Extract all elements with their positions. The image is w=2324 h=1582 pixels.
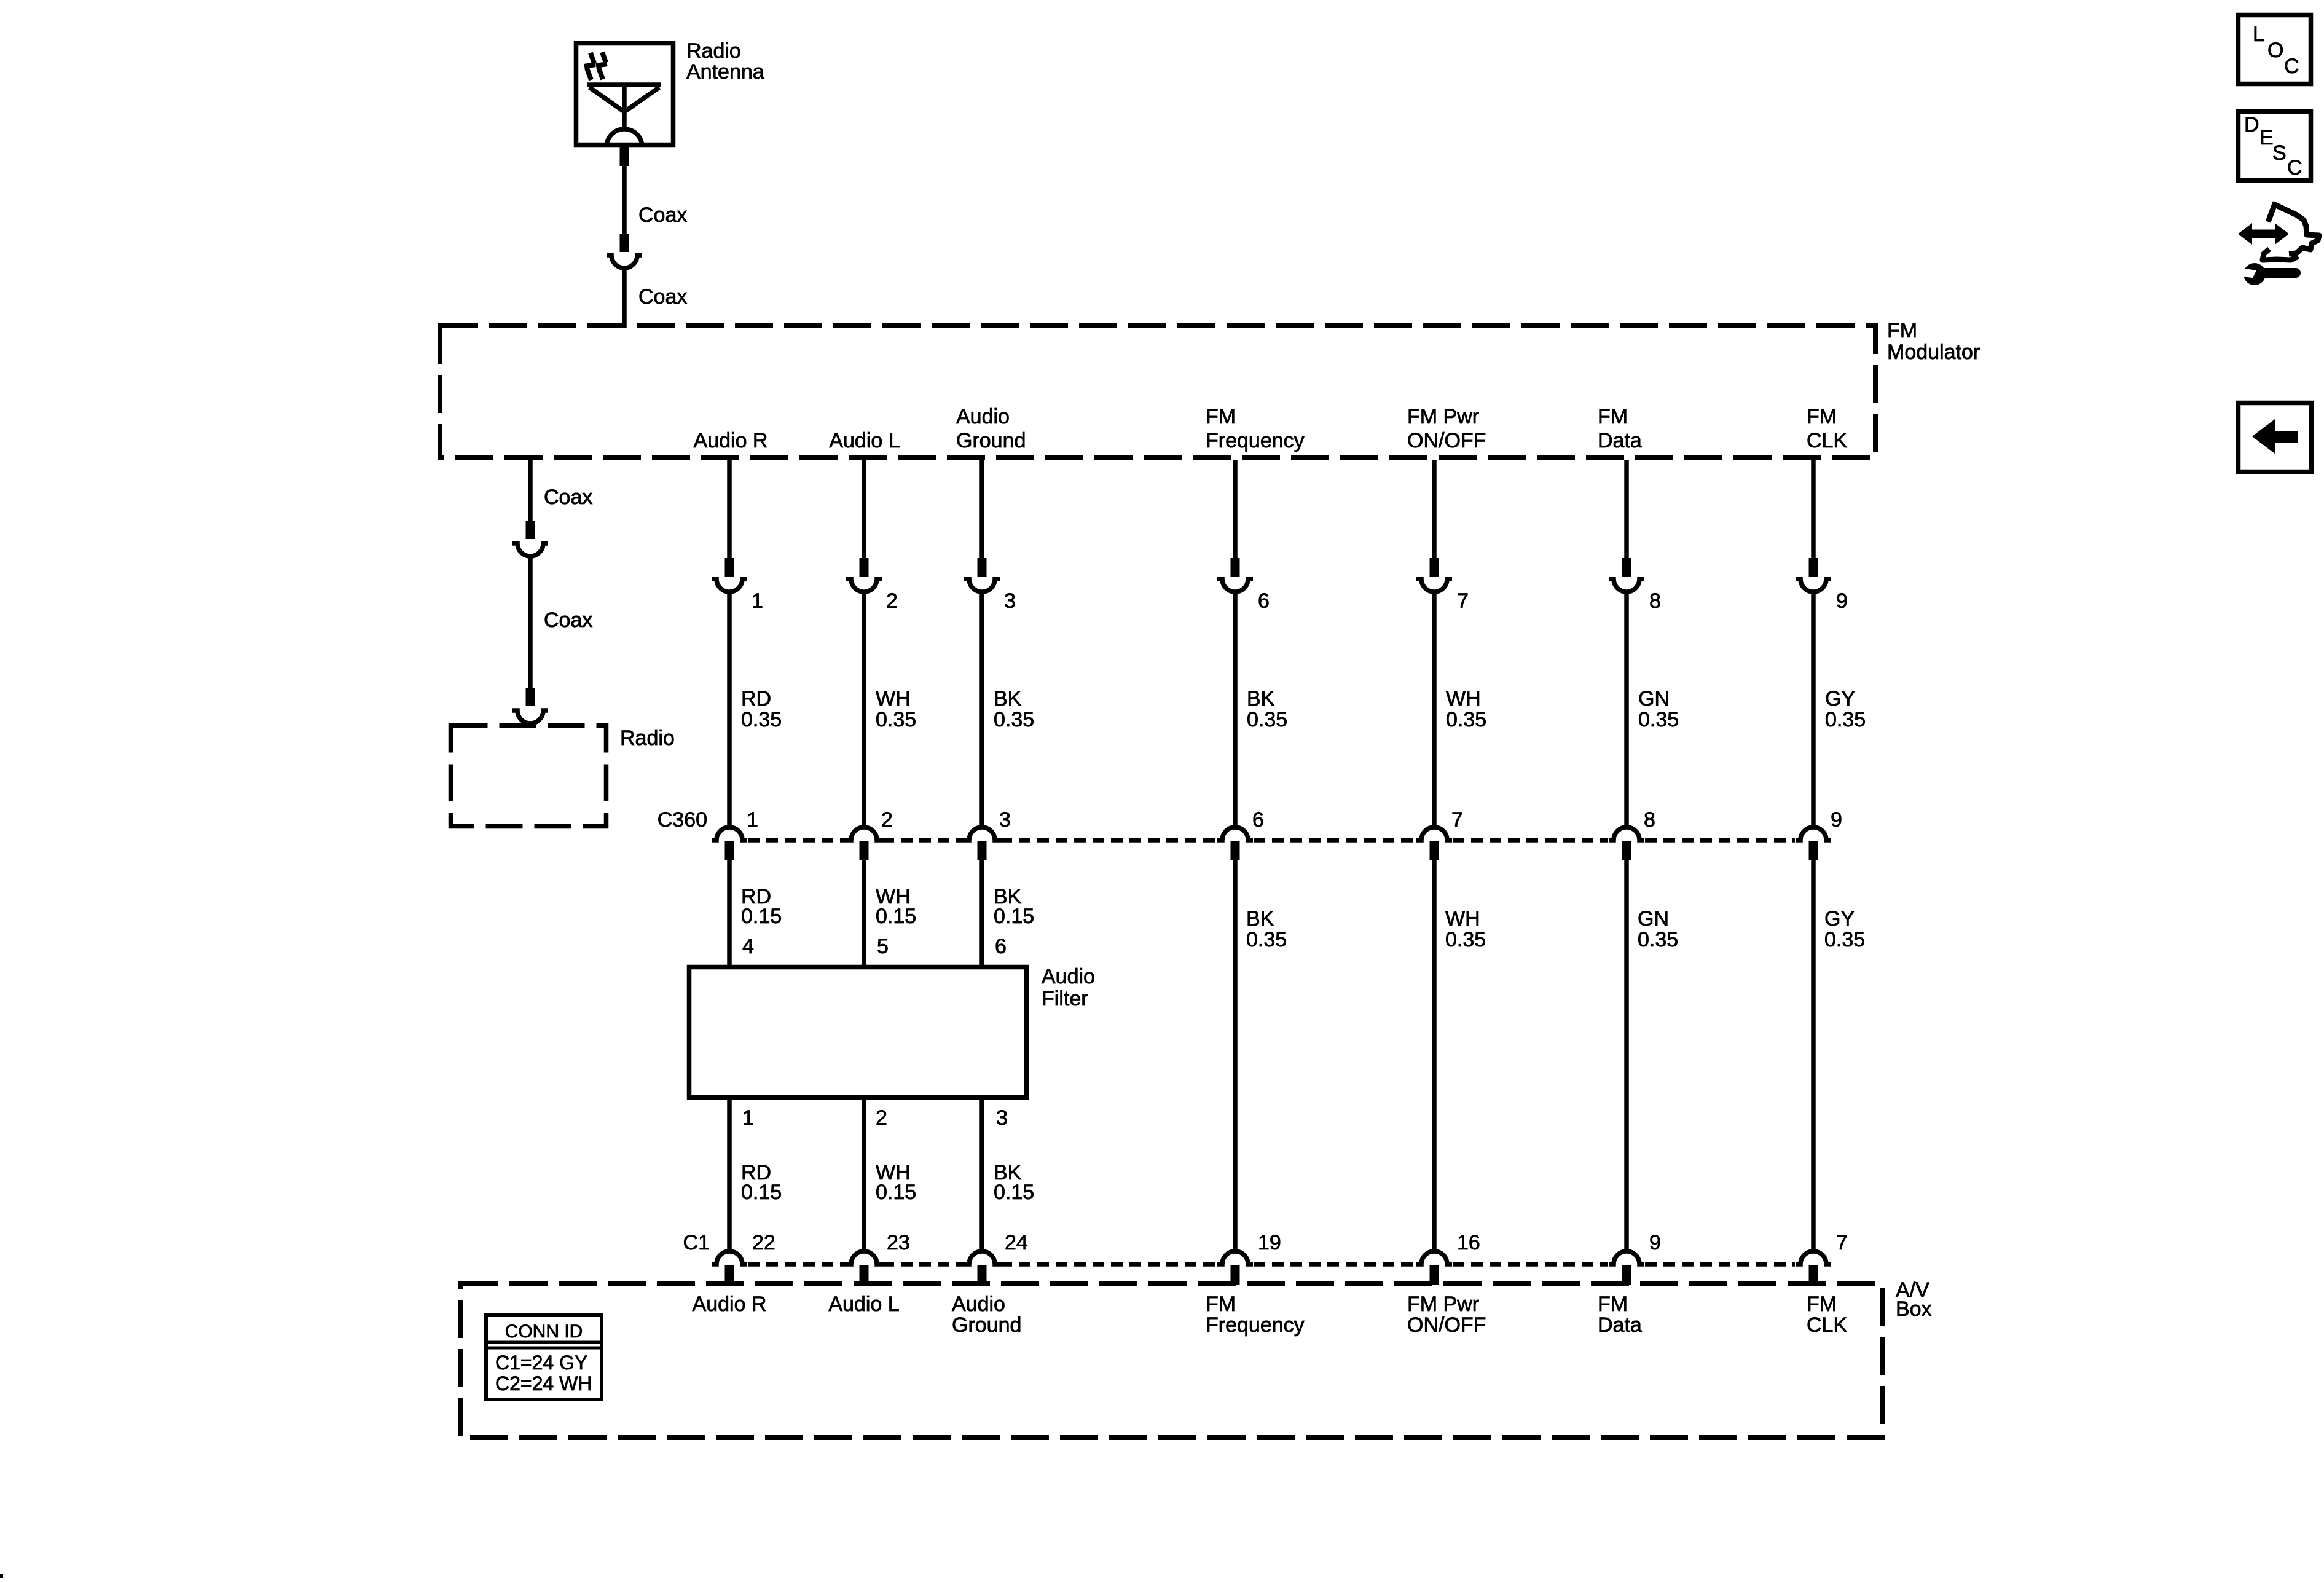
- C1 male pin wire 3: [978, 1265, 987, 1285]
- wire 6 lower: [1624, 860, 1629, 1252]
- svg-text:S: S: [2272, 141, 2287, 165]
- audio filter box: [689, 967, 1027, 1098]
- svg-text:GY: GY: [1824, 907, 1855, 931]
- svg-text:7: 7: [1457, 589, 1469, 613]
- svg-text:7: 7: [1836, 1231, 1848, 1254]
- C360 dome wire 1: [712, 827, 747, 840]
- A/V box dashed: [460, 1284, 1882, 1438]
- svg-text:L: L: [2253, 23, 2264, 46]
- svg-text:16: 16: [1457, 1231, 1480, 1254]
- C360 dome wire 4: [1217, 827, 1253, 840]
- svg-text:0.35: 0.35: [1446, 708, 1486, 731]
- male pin wire 2: [860, 558, 869, 577]
- male pin wire 7: [1809, 558, 1818, 577]
- wire 5 FM pwr upper: [1432, 460, 1437, 558]
- wire 7 lower: [1811, 860, 1816, 1252]
- wire 3 to audio filter: [979, 860, 984, 967]
- coax connector cup 2: [512, 543, 548, 556]
- wire 3 below audio filter: [979, 1098, 984, 1252]
- svg-text:BK: BK: [994, 687, 1022, 710]
- wire 2 mid: [862, 590, 866, 827]
- svg-text:Coax: Coax: [544, 486, 592, 509]
- svg-text:6: 6: [1252, 808, 1264, 832]
- svg-text:CLK: CLK: [1807, 429, 1847, 452]
- connector cup pin 8: [1609, 579, 1644, 592]
- C1 dome wire 4: [1217, 1251, 1253, 1264]
- wire coax to radio: [528, 554, 533, 688]
- C1 male pin wire 4: [1231, 1265, 1240, 1285]
- connector cup pin 6: [1217, 579, 1253, 592]
- svg-text:Ground: Ground: [956, 429, 1026, 452]
- svg-text:GN: GN: [1638, 907, 1669, 931]
- C360 male pin wire 1: [725, 841, 734, 860]
- svg-text:Audio L: Audio L: [828, 1293, 899, 1316]
- coax male pin 2: [620, 234, 629, 252]
- svg-text:C1=24 GY: C1=24 GY: [495, 1352, 587, 1374]
- C360 dotted junction line: [748, 838, 1795, 843]
- C360 dome wire 5: [1416, 827, 1452, 840]
- svg-text:6: 6: [1258, 589, 1270, 613]
- svg-text:FM: FM: [1598, 1293, 1628, 1316]
- svg-text:C2=24 WH: C2=24 WH: [495, 1372, 592, 1395]
- coax male pin below antenna box: [620, 147, 629, 166]
- svg-text:6: 6: [995, 935, 1007, 958]
- wire 3 audio ground upper: [979, 460, 984, 558]
- svg-text:9: 9: [1831, 808, 1842, 832]
- wire 2 audio L upper: [862, 460, 866, 558]
- connector cup pin 1: [712, 579, 747, 592]
- wire coax upper: [622, 166, 627, 234]
- C1 male pin wire 7: [1809, 1265, 1818, 1285]
- wire coax to FM modulator: [622, 266, 627, 328]
- C360 male pin wire 4: [1231, 841, 1240, 860]
- svg-text:BK: BK: [1247, 687, 1275, 710]
- male pin wire 1: [725, 558, 734, 577]
- svg-text:C360: C360: [658, 808, 707, 832]
- svg-text:FM: FM: [1598, 405, 1628, 428]
- svg-text:0.15: 0.15: [741, 1181, 782, 1204]
- wire 4 lower: [1233, 860, 1238, 1252]
- C360 dome wire 6: [1609, 827, 1644, 840]
- wire 1 to audio filter: [727, 860, 732, 967]
- C360 dome wire 7: [1796, 827, 1831, 840]
- svg-text:1: 1: [742, 1106, 754, 1130]
- wire 2 below audio filter: [862, 1098, 866, 1252]
- LOC box: [2239, 15, 2311, 84]
- connector cup pin 3: [964, 579, 1000, 592]
- FM modulator dashed box: [440, 326, 1875, 458]
- svg-text:3: 3: [1004, 589, 1016, 613]
- C360 male pin wire 2: [860, 841, 869, 860]
- male pin wire 4: [1231, 558, 1240, 577]
- svg-text:23: 23: [887, 1231, 910, 1254]
- back arrow icon: [2252, 419, 2298, 454]
- C1 male pin wire 5: [1430, 1265, 1439, 1285]
- svg-text:Radio: Radio: [620, 726, 675, 750]
- conn id table divider: [486, 1342, 602, 1348]
- C360 male pin wire 5: [1430, 841, 1439, 860]
- coax male pin 4: [526, 688, 535, 706]
- wire 1 mid: [727, 590, 732, 827]
- svg-text:9: 9: [1836, 589, 1848, 613]
- svg-text:Coax: Coax: [638, 203, 687, 227]
- nav wrench icon: [2241, 263, 2296, 285]
- DESC box: [2239, 112, 2311, 181]
- svg-text:3: 3: [996, 1106, 1008, 1130]
- antenna RF bolt 1: [584, 53, 595, 80]
- svg-text:ON/OFF: ON/OFF: [1407, 429, 1486, 452]
- coax male pin 3: [526, 521, 535, 539]
- conn id table box: [486, 1315, 602, 1399]
- radio dashed box: [451, 726, 607, 827]
- svg-text:0.15: 0.15: [994, 1181, 1034, 1204]
- svg-text:Coax: Coax: [544, 608, 592, 632]
- C1 dome wire 7: [1796, 1251, 1831, 1264]
- svg-text:Antenna: Antenna: [686, 60, 764, 84]
- svg-text:0.35: 0.35: [1638, 708, 1679, 731]
- svg-text:2: 2: [881, 808, 893, 832]
- svg-text:24: 24: [1005, 1231, 1028, 1254]
- C1 dome wire 1: [712, 1251, 747, 1264]
- coax wire below FM modulator: [528, 458, 533, 521]
- svg-text:Audio: Audio: [956, 405, 1010, 428]
- svg-text:0.35: 0.35: [741, 708, 782, 731]
- svg-text:WH: WH: [876, 687, 911, 710]
- svg-text:1: 1: [747, 808, 758, 832]
- svg-text:Audio: Audio: [952, 1293, 1005, 1316]
- svg-text:22: 22: [752, 1231, 775, 1254]
- svg-text:FM: FM: [1206, 405, 1236, 428]
- svg-text:Frequency: Frequency: [1206, 429, 1305, 452]
- antenna connector dome: [607, 129, 642, 147]
- C1 male pin wire 2: [860, 1265, 869, 1285]
- C360 dome wire 2: [846, 827, 882, 840]
- connector cup pin 2: [846, 579, 882, 592]
- svg-text:RD: RD: [741, 687, 771, 710]
- svg-text:3: 3: [999, 808, 1011, 832]
- coax connector cup 3: [512, 710, 548, 723]
- svg-text:0.35: 0.35: [1246, 928, 1287, 951]
- svg-text:0.35: 0.35: [1247, 708, 1287, 731]
- svg-text:Audio L: Audio L: [829, 429, 900, 452]
- antenna symbol: [587, 85, 661, 127]
- svg-text:8: 8: [1649, 589, 1661, 613]
- svg-text:Box: Box: [1896, 1297, 1932, 1321]
- svg-text:2: 2: [876, 1106, 887, 1130]
- svg-text:E: E: [2259, 126, 2274, 149]
- svg-text:CLK: CLK: [1807, 1313, 1847, 1337]
- wire 4 FM frequency upper: [1233, 460, 1238, 558]
- svg-text:0.35: 0.35: [1825, 708, 1866, 731]
- C1 male pin wire 1: [725, 1265, 734, 1285]
- svg-text:8: 8: [1644, 808, 1655, 832]
- svg-text:Audio: Audio: [1042, 965, 1095, 988]
- male pin wire 5: [1430, 558, 1439, 577]
- svg-text:2: 2: [886, 589, 898, 613]
- svg-text:D: D: [2244, 113, 2259, 136]
- svg-text:19: 19: [1258, 1231, 1281, 1254]
- C360 male pin wire 7: [1809, 841, 1818, 860]
- male pin wire 6: [1622, 558, 1631, 577]
- svg-text:GY: GY: [1825, 687, 1855, 710]
- svg-text:Modulator: Modulator: [1887, 340, 1980, 364]
- svg-text:FM: FM: [1807, 405, 1837, 428]
- nav arrow box: [2239, 403, 2312, 472]
- svg-text:WH: WH: [1446, 687, 1481, 710]
- svg-text:FM: FM: [1887, 319, 1917, 342]
- svg-text:0.35: 0.35: [994, 708, 1034, 731]
- wire 1 below audio filter: [727, 1098, 732, 1252]
- svg-text:4: 4: [742, 935, 754, 958]
- svg-text:0.35: 0.35: [1445, 928, 1486, 951]
- svg-text:C: C: [2284, 55, 2299, 78]
- svg-text:Ground: Ground: [952, 1313, 1021, 1337]
- C1 dotted junction line: [748, 1262, 1795, 1267]
- svg-text:C1: C1: [683, 1231, 710, 1254]
- svg-text:5: 5: [877, 935, 889, 958]
- svg-text:7: 7: [1451, 808, 1463, 832]
- svg-text:0.15: 0.15: [994, 905, 1034, 928]
- male pin wire 3: [978, 558, 987, 577]
- wire 6 mid: [1624, 590, 1629, 827]
- svg-text:Data: Data: [1598, 1313, 1642, 1337]
- svg-text:0.15: 0.15: [876, 1181, 916, 1204]
- svg-text:0.15: 0.15: [741, 905, 782, 928]
- svg-text:0.15: 0.15: [876, 905, 916, 928]
- svg-text:Audio R: Audio R: [693, 1293, 767, 1316]
- antenna RF bolt 2: [596, 52, 607, 79]
- wire 4 mid: [1233, 590, 1238, 827]
- svg-text:0.35: 0.35: [876, 708, 916, 731]
- svg-text:FM: FM: [1206, 1293, 1236, 1316]
- wire 6 FM data upper: [1624, 460, 1629, 558]
- C1 dome wire 3: [964, 1251, 1000, 1264]
- svg-text:0.35: 0.35: [1638, 928, 1678, 951]
- svg-text:Filter: Filter: [1042, 987, 1088, 1010]
- connector cup pin 7: [1416, 579, 1452, 592]
- svg-text:Audio R: Audio R: [694, 429, 768, 452]
- svg-text:Data: Data: [1598, 429, 1642, 452]
- svg-text:Frequency: Frequency: [1206, 1313, 1305, 1337]
- C1 dome wire 6: [1609, 1251, 1644, 1264]
- C1 dome wire 5: [1416, 1251, 1452, 1264]
- wire 5 lower: [1432, 860, 1437, 1252]
- C1 dome wire 2: [846, 1251, 882, 1264]
- page artifact dot: [0, 1574, 3, 1578]
- svg-text:0.35: 0.35: [1824, 928, 1865, 951]
- wire 7 FM CLK upper: [1811, 460, 1816, 558]
- svg-text:9: 9: [1649, 1231, 1661, 1254]
- coax inline connector cup: [607, 255, 642, 268]
- nav double arrow icon: [2238, 223, 2289, 245]
- radio antenna box: [576, 44, 673, 145]
- svg-text:FM: FM: [1807, 1293, 1837, 1316]
- svg-text:FM Pwr: FM Pwr: [1407, 1293, 1479, 1316]
- C360 male pin wire 6: [1622, 841, 1631, 860]
- svg-text:ON/OFF: ON/OFF: [1407, 1313, 1486, 1337]
- svg-text:BK: BK: [1246, 907, 1274, 931]
- wire 7 mid: [1811, 590, 1816, 827]
- svg-text:1: 1: [752, 589, 763, 613]
- svg-text:CONN ID: CONN ID: [505, 1321, 583, 1342]
- svg-text:WH: WH: [1445, 907, 1480, 931]
- wire 1 audio R upper: [727, 460, 732, 558]
- wire 3 mid: [979, 590, 984, 827]
- svg-text:Coax: Coax: [638, 285, 687, 309]
- svg-text:Radio: Radio: [686, 39, 741, 63]
- nav jagged outline icon: [2263, 202, 2319, 260]
- connector cup pin 9: [1796, 579, 1831, 592]
- svg-text:C: C: [2287, 156, 2302, 179]
- C360 male pin wire 3: [978, 841, 987, 860]
- C1 male pin wire 6: [1622, 1265, 1631, 1285]
- C360 dome wire 3: [964, 827, 1000, 840]
- svg-text:GN: GN: [1638, 687, 1670, 710]
- svg-text:O: O: [2267, 39, 2283, 62]
- wire 5 mid: [1432, 590, 1437, 827]
- svg-text:FM Pwr: FM Pwr: [1407, 405, 1479, 428]
- wire 2 to audio filter: [862, 860, 866, 967]
